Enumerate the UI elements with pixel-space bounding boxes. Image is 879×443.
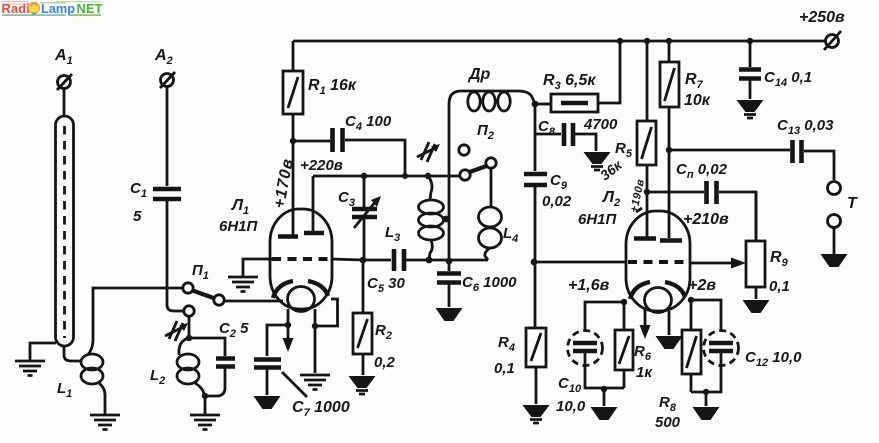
trimmer mark L3 [417,142,440,162]
wire cathode staple [318,299,338,326]
svg-text:Др: Др [467,66,491,83]
inductor L2 [177,354,199,370]
svg-text:10к: 10к [684,92,711,109]
resistor R3 [535,103,551,106]
svg-text:Л1: Л1 [231,197,249,217]
node R8 top [688,297,694,303]
svg-text:C9: C9 [550,172,568,192]
ground R2 [349,376,376,394]
capacitor C12 electrolytic [704,331,739,366]
ground C14 [737,100,764,118]
ground C6 [436,308,463,321]
svg-text:C14 0,1: C14 0,1 [764,69,812,89]
svg-text:R3 6,5к: R3 6,5к [543,72,596,92]
wire anode2 riser [312,176,315,233]
wire node to L2 [179,338,189,355]
ground T [821,254,848,267]
wire L1 top to switch P1 [88,288,182,355]
ground antenna left [15,361,45,376]
svg-text:+2в: +2в [688,277,716,294]
node cathode right [312,323,318,329]
capacitor C9 [534,134,537,171]
tube V2 cathode arcs [630,282,650,299]
svg-text:C10: C10 [558,375,582,395]
svg-text:+210в: +210в [683,211,729,228]
inductor L1 [81,354,103,370]
ground C8 [584,152,611,170]
svg-text:.: . [71,1,75,16]
svg-text:П2: П2 [477,122,494,142]
ground L1 [90,415,120,430]
svg-text:500: 500 [655,414,681,431]
svg-text:Radi: Radi [2,1,31,16]
capacitor C3 trimmer [363,176,366,260]
tube V1 grid (dashed) [272,257,331,261]
terminal +250v [826,35,839,48]
antenna element [56,116,74,346]
svg-text:L4: L4 [503,225,518,245]
tube V2 L2 6N1P envelope [626,211,690,311]
svg-text:R7: R7 [685,71,704,91]
tube V1 heater circle [288,287,315,312]
wire L2 bottom to ground node [195,383,204,396]
wire L1 bottom to ground [99,383,105,414]
svg-text:NET: NET [77,1,103,16]
wire P1 arm to tube V1 cathode [225,300,284,303]
wire C1 to switch P1 lower contact [167,201,183,311]
node C4 to +220v wire [402,173,408,179]
resistor R4 [535,262,536,404]
capacitor C2 [216,359,235,367]
node R7 C13 [666,147,672,153]
svg-text:5: 5 [133,208,142,225]
wire V1 grid to ground [243,259,272,276]
node R1 C4 [290,138,296,144]
heater arrow V2 [644,310,647,327]
capacitor C10 electrolytic [568,331,603,366]
svg-text:C1: C1 [130,180,147,200]
terminal T [828,182,841,195]
svg-text:C4 100: C4 100 [345,113,392,133]
ground L2 [190,415,220,430]
wire P1 lower contact down to L2/C2 node [188,316,191,338]
wire node to C2 [189,338,225,356]
ground R8 C12 [693,407,720,420]
inductor L3 [428,176,432,200]
tube V1 anode 2 [304,231,324,236]
wire antenna bottom to ground [30,343,56,361]
tube V1 anode 1 [278,234,298,239]
capacitor C5 [394,249,404,271]
svg-text:L1: L1 [57,380,72,400]
svg-text:6Н1П: 6Н1П [578,211,618,228]
wire A1 to antenna [63,89,66,118]
wire to C7 [267,325,288,356]
wire V1 cathode right lead [314,309,317,373]
wire choke lead down through L3 tap [448,104,451,262]
svg-text:C5 30: C5 30 [367,275,405,295]
node grid bus left [360,257,367,264]
svg-text:R2: R2 [375,322,392,342]
wire +250v top rail [293,40,825,43]
tube V1 cathode arcs [273,281,293,298]
heater arrow V1 [287,325,290,340]
capacitor C6 [448,261,451,271]
ground C7 [254,396,281,409]
capacitor C4 [293,140,330,143]
svg-text:C13 0,03: C13 0,03 [777,117,834,137]
svg-text:Л2: Л2 [602,189,620,209]
node R5 anode Cp [644,189,650,195]
svg-text:C7 1000: C7 1000 [292,399,350,419]
capacitor C13 [669,149,790,152]
node R7 on rail [666,38,672,44]
svg-text:+250в: +250в [799,9,845,26]
capacitor Cp [647,191,704,194]
resistor R1 [283,71,303,114]
svg-text:R9: R9 [770,249,789,269]
ground V1 grid [228,277,258,292]
svg-text:R6: R6 [634,343,652,363]
tube V2 anode 2 [660,238,682,243]
inductor L4 [479,207,502,227]
svg-text:0,1: 0,1 [494,360,515,377]
tube V2 grid (dashed) [628,260,688,264]
wire V2 cathode left [585,302,627,330]
node bus C6 [446,258,453,265]
wire V1 grid to C5 [331,259,391,260]
svg-text:A1: A1 [54,47,73,67]
svg-text:+1,6в: +1,6в [568,277,610,294]
svg-text:R8: R8 [659,394,677,414]
wire node to ground [204,396,207,414]
svg-text:R1 16к: R1 16к [308,77,357,97]
node C3 top [361,173,367,179]
node L2 C2 top [186,335,192,341]
wire C2 bottom to ground node [204,367,225,396]
wire P2 common to L4 [490,169,493,207]
node R8 C12 ground [703,389,709,395]
tube V2 anode 1 [634,236,656,241]
wire V2 cathode right [689,300,721,330]
node R3 riser on rail [617,38,623,44]
capacitor C14 [749,41,752,67]
node R6 top [621,299,627,305]
svg-text:R5: R5 [615,140,633,160]
svg-text:6Н1П: 6Н1П [219,218,259,235]
node choke R3 C8 [532,101,539,108]
ground C10 R6 [591,407,618,420]
svg-text:C12 10,0: C12 10,0 [745,349,802,369]
resistor R2 [362,260,365,375]
svg-text:4700: 4700 [583,116,618,133]
capacitor C8 [535,104,561,134]
svg-text:C3: C3 [338,189,355,209]
svg-text:L3: L3 [385,224,400,244]
capacitor C7 [254,360,281,368]
wire V2 cathode mid to ground [668,311,671,335]
resistor R8 [690,300,693,392]
svg-text:10,0: 10,0 [556,398,586,415]
node L2 C2 bottom [202,393,208,399]
logo RadioLamp.NET [2,1,103,16]
tube V2 heater circle [645,288,672,313]
svg-text:R4: R4 [498,334,515,354]
wire V1 cathode left lead [287,309,290,325]
resistor R5 [646,41,649,121]
svg-text:П1: П1 [192,262,209,282]
node cathode C7 [285,322,291,328]
trimmer mark L2 [165,321,188,341]
capacitor C1 [153,189,181,199]
node R5 on rail [644,38,650,44]
svg-text:+190в: +190в [628,178,647,214]
svg-text:Cп 0,02: Cп 0,02 [676,161,728,181]
svg-text:L2: L2 [150,367,165,387]
svg-text:0,2: 0,2 [374,354,396,371]
svg-text:T: T [847,195,858,212]
resistor R6 [623,302,626,388]
wire grid bus V2 [534,261,627,264]
tube V1 L1 6N1P envelope [270,209,332,309]
ground V2 cathode [656,336,683,349]
ground R4 [523,405,550,423]
svg-text:A2: A2 [154,47,173,67]
svg-text:+220в: +220в [300,157,343,174]
svg-text:0,1: 0,1 [769,278,790,295]
node C10 R6 ground [601,386,607,392]
ground R9 [743,300,770,313]
svg-text:C6 1000: C6 1000 [462,274,517,294]
node L3 top [425,173,431,179]
resistor R9 [746,241,765,287]
wire A2 to C1 [166,87,169,187]
wire V2 grid to R9 with arrow [690,262,732,265]
node L3 tap [443,216,450,223]
ground V1 cathode mid [300,375,330,390]
node C14 on rail [747,38,753,44]
svg-text:0,02: 0,02 [542,193,572,210]
label C7 1000 with leader [282,372,307,397]
node L3 bottom [426,257,433,264]
resistor R7 [668,41,671,62]
wire antenna bottom to L1 [64,346,81,361]
node bus R4 [531,259,538,266]
svg-text:1к: 1к [636,364,653,381]
